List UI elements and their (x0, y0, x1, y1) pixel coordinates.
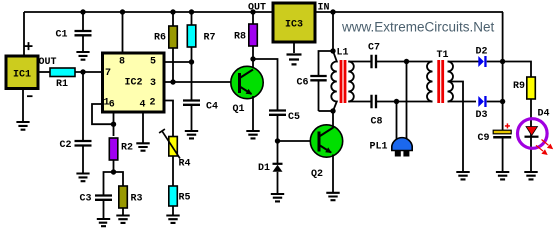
capacitor C4 (183, 101, 218, 131)
plug PL1 (369, 138, 412, 157)
svg-text:R6: R6 (154, 33, 166, 44)
svg-text:OUT: OUT (38, 57, 56, 68)
resistor R7 (187, 12, 215, 47)
diode D3 (475, 96, 502, 121)
wire R2 bottom to junction (113, 160, 115, 172)
wire R5 to ground (172, 206, 174, 215)
LED D4 (518, 109, 550, 149)
svg-text:PL1: PL1 (369, 141, 387, 152)
pin 5 label (150, 56, 156, 67)
pin 8 label (119, 56, 125, 67)
svg-text:Q2: Q2 (311, 169, 323, 180)
ground pin4 (136, 143, 149, 150)
wire pin4 down (142, 112, 144, 143)
svg-text:C3: C3 (79, 193, 91, 204)
svg-text:6: 6 (109, 99, 115, 110)
svg-text:R8: R8 (234, 32, 246, 43)
svg-text:IC3: IC3 (285, 20, 303, 31)
wire IN drop to L1 (332, 12, 334, 51)
wire R7 down to C4 (191, 47, 193, 100)
svg-text:R2: R2 (121, 142, 133, 153)
svg-text:4: 4 (139, 99, 145, 110)
wire pin3 to Q1 base (164, 81, 232, 83)
node junction C7/T1/PL1 (404, 59, 409, 64)
ground below IC1 (16, 122, 29, 130)
pin 2 label (149, 97, 155, 108)
ground below T1 tap (456, 172, 469, 179)
svg-text:R4: R4 (178, 158, 190, 169)
diode D2 (475, 47, 502, 68)
svg-text:R9: R9 (513, 81, 525, 92)
IC1 battery/supply (6, 42, 38, 97)
node junction pin1/pin6/R2 (111, 122, 116, 127)
ground below R5 (166, 216, 179, 223)
wire IC1 plus lead up to rail (23, 12, 25, 56)
svg-text:C1: C1 (55, 30, 67, 41)
ground below Q1 (246, 131, 259, 138)
wire R3 to ground (122, 208, 124, 215)
watermark text (341, 20, 495, 35)
svg-text:Q1: Q1 (232, 104, 244, 115)
ground below C3 (97, 219, 110, 226)
wire pin6 down (113, 112, 115, 136)
pin 3 label (150, 78, 156, 89)
node junction R1/pin7/C2 (80, 69, 85, 74)
wire Q2 collector (332, 114, 334, 129)
capacitor C5 (269, 111, 300, 142)
node OUT label (248, 3, 266, 14)
pin 7 label (105, 68, 111, 79)
svg-text:L1: L1 (336, 47, 348, 58)
node junction pin5/R7 (189, 59, 194, 64)
node junction L1 bottom/Q2 collector (330, 108, 335, 113)
ground below C9 (496, 172, 509, 179)
pin 1 label (103, 97, 109, 108)
capacitor C6 (296, 76, 326, 111)
svg-text:7: 7 (105, 68, 111, 79)
wire T1 center tap to ground (448, 82, 464, 172)
svg-text:3: 3 (150, 78, 156, 89)
wire D2 junction to R9 (503, 62, 531, 78)
ground below D1 (271, 194, 284, 201)
svg-text:www.ExtremeCircuits.Net: www.ExtremeCircuits.Net (341, 20, 495, 35)
resistor R8 (234, 12, 257, 46)
wire IC3 ground lead (293, 42, 295, 53)
transistor Q1 (231, 66, 263, 115)
svg-text:T1: T1 (436, 50, 448, 61)
capacitor C2 (59, 72, 91, 173)
svg-text:D3: D3 (475, 110, 487, 121)
resistor R5 (169, 186, 191, 206)
ground below C4 (185, 131, 198, 138)
wire R1 to IC2 pin7 (75, 71, 103, 73)
node junction L1 top (330, 48, 335, 53)
diode D1 (258, 163, 283, 193)
wire rail to IC2 pin8 (122, 12, 124, 53)
resistor R3 (119, 186, 143, 208)
wire right rail drop to D2 junction (502, 12, 504, 62)
capacitor C9 electrolytic (477, 123, 511, 171)
wire junction to D1 (277, 141, 279, 163)
svg-text:C8: C8 (370, 117, 382, 128)
wire R8 to collector node (252, 46, 254, 59)
wire junction to Q2 base (278, 140, 319, 142)
wire Q1 emitter to ground (252, 96, 254, 130)
wire L1 secondary top to C7 (348, 61, 370, 63)
svg-text:R5: R5 (178, 192, 190, 203)
node junction R8/Q1 collector/C5 (250, 56, 255, 61)
node junction C5/D1/Q2 base (275, 138, 280, 143)
wire L1 secondary bottom to C8 (348, 101, 370, 103)
resistor R2 (109, 138, 133, 160)
node junction R7 on rail (189, 9, 194, 14)
svg-text:C4: C4 (206, 102, 218, 113)
svg-text:IC2: IC2 (124, 78, 142, 89)
ground below C2 (76, 174, 89, 182)
pin 4 label (139, 99, 145, 110)
wire D2 junction down to D3 junction (502, 62, 504, 102)
node junction D3/C9 (500, 99, 505, 104)
wire collector node to C5 (253, 59, 278, 110)
svg-text:5: 5 (150, 56, 156, 67)
node junction R6 on rail (170, 9, 175, 14)
wire pin5 to R7 (164, 61, 192, 63)
svg-text:C9: C9 (477, 133, 489, 144)
wire junction to R3 (114, 172, 124, 186)
wire T1 secondary bottom to D3 (448, 101, 476, 103)
svg-text:2: 2 (149, 97, 155, 108)
node junction IN on rail (330, 9, 335, 14)
capacitor C1 (55, 12, 91, 51)
ground below R3 (116, 216, 129, 223)
node junction pin8 on rail (120, 9, 125, 14)
node junction C1 on rail (80, 9, 85, 14)
wire R6 to pin3 line (172, 48, 174, 82)
resistor R6 (154, 12, 177, 48)
capacitor C8 (370, 95, 432, 128)
wire C7 junction down to PL1 (406, 62, 408, 141)
node IN label (317, 3, 329, 14)
node junction D2 output (500, 59, 505, 64)
trimmer R4 (159, 129, 190, 169)
node junction C8/PL1 (394, 99, 399, 104)
node junction R2/C3/R3 (111, 169, 116, 174)
wire Q2 emitter to ground (332, 155, 334, 193)
wire C8 junction down to PL1 (396, 102, 398, 141)
LED light arrows (536, 140, 553, 156)
ground below D4 (524, 172, 537, 179)
op-amp/timer IC2 (103, 53, 165, 112)
wire pin1 loop (92, 104, 111, 124)
svg-text:C2: C2 (59, 140, 71, 151)
wire IC1 OUT to R1 (38, 57, 57, 72)
wire R4 to R5 (172, 156, 174, 186)
ground below C1 (76, 52, 89, 60)
wire L1 top to C6 (319, 51, 334, 75)
node junction R8 on rail (250, 9, 255, 14)
wire IC1 minus lead down (22, 89, 24, 122)
wire Q1 collector (252, 59, 254, 70)
wire C6 bottom to L1 bottom junction (319, 110, 334, 112)
resistor R9 (513, 77, 535, 99)
svg-text:8: 8 (119, 56, 125, 67)
svg-text:R3: R3 (130, 193, 142, 204)
svg-text:C7: C7 (368, 43, 380, 54)
svg-text:R7: R7 (203, 33, 215, 44)
pin 6 label (109, 99, 115, 110)
capacitor C7 (368, 43, 433, 69)
wire pin2 jog to R4 (164, 101, 173, 137)
capacitor C3 (79, 193, 112, 218)
wire T1 secondary top to D2 (448, 61, 479, 63)
ground below Q2 (326, 193, 339, 200)
svg-text:D2: D2 (475, 47, 487, 58)
wire top supply rail (24, 11, 503, 13)
svg-text:IC1: IC1 (13, 70, 31, 81)
svg-text:D1: D1 (258, 163, 270, 174)
wire junction to C3 (104, 172, 114, 195)
ground below IC3 (287, 55, 302, 65)
svg-text:IN: IN (317, 3, 329, 14)
svg-text:D4: D4 (537, 109, 549, 120)
svg-text:R1: R1 (56, 79, 68, 90)
resistor R1 (50, 68, 75, 90)
wire R9 to LED and ground (530, 99, 532, 171)
transistor Q2 (310, 125, 342, 180)
wire D3 junction to C9 (502, 102, 504, 131)
svg-text:C6: C6 (296, 77, 308, 88)
node junction R6/pin3 (170, 79, 175, 84)
voltage regulator IC3 (273, 3, 315, 42)
svg-text:C5: C5 (288, 112, 300, 123)
transformer T1 (427, 50, 453, 103)
transformer L1 (331, 47, 354, 111)
